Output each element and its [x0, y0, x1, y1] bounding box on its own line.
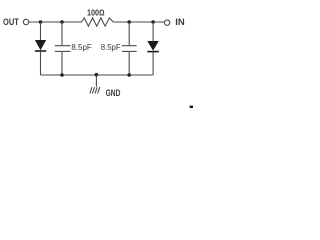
junction dot node A (diode D1 tap)	[39, 20, 43, 24]
capacitor C1 top plate	[55, 45, 71, 47]
junction dot rail at C1	[60, 73, 64, 77]
resistor R1 body	[82, 18, 114, 26]
svg-text:8.5pF: 8.5pF	[101, 42, 121, 52]
corner artifact mark	[190, 106, 193, 108]
wire bottom ground rail	[41, 74, 154, 76]
wire OUT to resistor	[29, 21, 82, 23]
capacitor C2 bottom plate	[122, 50, 137, 52]
node IN terminal	[164, 20, 169, 25]
junction dot node D (diode D2 tap)	[151, 20, 155, 24]
diode D1 triangle	[35, 40, 46, 50]
wire capacitor C1 top lead	[61, 22, 63, 45]
wire diode D1 cathode to rail	[40, 52, 42, 75]
capacitor C1 bottom plate	[55, 50, 71, 52]
junction dot rail at C2	[127, 73, 131, 77]
wire resistor to IN	[113, 21, 164, 23]
svg-text:100Ω: 100Ω	[87, 7, 105, 17]
wire capacitor C2 bottom lead	[128, 52, 130, 75]
svg-text:IN: IN	[175, 17, 185, 28]
wire diode D1 anode	[40, 22, 42, 40]
svg-text:8.5pF: 8.5pF	[71, 42, 91, 52]
wire diode D2 anode	[152, 22, 154, 41]
junction dot node C (capacitor C2 tap)	[127, 20, 131, 24]
junction dot node B (capacitor C1 tap)	[60, 20, 64, 24]
ground hatch symbol	[90, 87, 100, 93]
wire diode D2 cathode to rail	[152, 52, 154, 75]
diode D1 cathode bar	[35, 50, 46, 52]
wire capacitor C2 top lead	[128, 22, 130, 45]
diode D2 cathode bar	[147, 51, 159, 53]
junction dot rail at ground	[95, 73, 99, 77]
svg-text:OUT: OUT	[3, 17, 19, 28]
diode D2 triangle	[147, 41, 159, 51]
capacitor C2 top plate	[122, 45, 137, 47]
wire capacitor C1 bottom lead	[61, 52, 63, 75]
svg-text:GND: GND	[106, 88, 121, 99]
node OUT terminal	[23, 19, 28, 24]
wire ground stub	[95, 75, 97, 87]
